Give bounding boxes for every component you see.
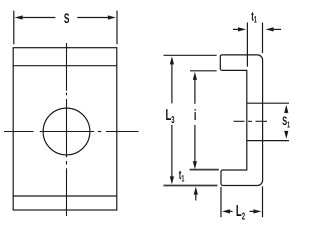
- horizontal centerline: [4, 131, 139, 133]
- dimension S extension line right: [116, 11, 118, 45]
- top bend line: [13, 65, 117, 67]
- dimension S line right with arrow: [77, 15, 116, 19]
- L2 extension line right: [262, 186, 264, 217]
- hole bottom line across leg with s1 extension: [247, 140, 289, 142]
- vertical centerline: [66, 43, 68, 216]
- t1 top extension line inner: [246, 23, 248, 67]
- L3 bottom extension line: [164, 185, 218, 187]
- side view C-profile outline: [220, 55, 262, 186]
- t1 top dim arrow right: [266, 27, 281, 31]
- t1 top extension line outer: [262, 23, 264, 53]
- i dimension line with arrows: [193, 72, 197, 169]
- L3 top extension line: [164, 54, 217, 56]
- hole dash-dot centerline: [234, 120, 268, 122]
- i bottom extension line: [190, 169, 219, 171]
- t1 bottom lower arrow with stem: [194, 187, 198, 201]
- svg-text:i: i: [194, 107, 197, 124]
- front view plate outline: [13, 48, 117, 210]
- L2 extension line left: [220, 187, 222, 217]
- i top extension line: [190, 70, 217, 72]
- hole circle: [43, 108, 90, 155]
- bottom bend line: [13, 195, 117, 197]
- dimension S extension line left: [13, 11, 15, 45]
- dimension S line left with arrow: [15, 15, 56, 19]
- L3 dimension line with arrows: [170, 56, 174, 184]
- hole top line across leg with s1 extension: [247, 102, 289, 104]
- L2 dimension line with arrows: [222, 209, 261, 213]
- s1 dimension line with arrows: [284, 105, 288, 139]
- t1 top dim arrow left: [233, 27, 246, 31]
- svg-text:S: S: [64, 11, 70, 26]
